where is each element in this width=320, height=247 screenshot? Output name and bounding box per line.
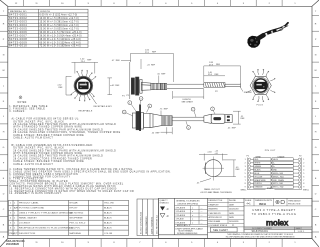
svg-text:CABLE: ALSTO FILM EXACT: CABLE: ALSTO FILM EXACT bbox=[13, 137, 53, 140]
dimension 1.06 ref row1 top bbox=[131, 53, 174, 82]
svg-text:3 PLACES: 3 PLACES bbox=[176, 210, 186, 213]
svg-text:2 PLACES: 2 PLACES bbox=[176, 214, 186, 217]
svg-text:ORANGE: ORANGE bbox=[254, 186, 263, 189]
svg-text:YELLOW: YELLOW bbox=[254, 176, 262, 178]
svg-text:YELLOW: YELLOW bbox=[104, 203, 115, 205]
svg-text:PANEL CUTOUT: PANEL CUTOUT bbox=[204, 188, 221, 191]
zone tick marks top bbox=[24, 0, 283, 6]
svg-text:-0: -0 bbox=[166, 214, 169, 218]
svg-text:LENGTH: LENGTH bbox=[40, 11, 50, 13]
svg-text:(NO) PVC: (NO) PVC bbox=[70, 228, 81, 230]
svg-text:PLUG: PLUG bbox=[257, 105, 264, 107]
zone numbers top bbox=[15, 3, 297, 5]
dimension length see chart bbox=[173, 89, 204, 99]
svg-text:48.00 IN +1.0-.5 (1219mm +25.4: 48.00 IN +1.0-.5 (1219mm +25.4-0) bbox=[40, 39, 81, 41]
zone letters left bbox=[3, 11, 5, 239]
svg-text:9: 9 bbox=[303, 187, 304, 189]
svg-text:OUTER JACKET: PVC, 80°C, BLACK: OUTER JACKET: PVC, 80°C, BLACK bbox=[13, 147, 64, 150]
balloon item 6 bbox=[148, 104, 152, 108]
svg-text:GREEN: GREEN bbox=[254, 166, 261, 168]
dimension 1.40 ref row1 right2 bbox=[204, 75, 225, 77]
svg-text:84733-0003: 84733-0003 bbox=[9, 19, 27, 23]
svg-text:DATE: DATE bbox=[229, 212, 235, 215]
row1 barrel bbox=[141, 82, 151, 90]
svg-text:MYLAR: MYLAR bbox=[70, 202, 78, 205]
svg-text:G: G bbox=[315, 147, 317, 149]
svg-text:J: J bbox=[315, 116, 316, 118]
svg-text:—: — bbox=[201, 211, 203, 213]
svg-text:28 GAUGE SHIELDED TWISTED PAIR: 28 GAUGE SHIELDED TWISTED PAIR WITH ALUM… bbox=[13, 155, 103, 158]
svg-text:BLACK: BLACK bbox=[254, 168, 261, 171]
svg-text:USAGE: USAGE bbox=[278, 156, 286, 159]
svg-text:7: 7 bbox=[245, 180, 246, 182]
svg-text:84733-0007: 84733-0007 bbox=[9, 33, 27, 37]
row2 usb-a plug body bbox=[211, 114, 225, 123]
svg-text:PANEL GASKET: PANEL GASKET bbox=[19, 217, 37, 220]
svg-text:6.00 IN +/-.5 (152.4mm +12.7-: 6.00 IN +/-.5 (152.4mm +12.7-0) bbox=[40, 15, 78, 17]
svg-text:PURPLE: PURPLE bbox=[254, 183, 262, 185]
svg-text:WHITE: WHITE bbox=[254, 163, 261, 165]
svg-text:DATE: DATE bbox=[229, 216, 235, 219]
pin out wire row 9 ORANGE bbox=[248, 185, 301, 188]
row2 locknut and flange bbox=[132, 111, 143, 129]
svg-text:84733-0005: 84733-0005 bbox=[9, 26, 27, 30]
svg-text:PROJECTION: PROJECTION bbox=[288, 203, 301, 205]
svg-text:SSTX-, 90Ω: SSTX-, 90Ω bbox=[273, 183, 284, 185]
svg-text:9: 9 bbox=[245, 187, 246, 189]
svg-text:M: M bbox=[315, 70, 317, 72]
svg-text:RED: RED bbox=[254, 159, 259, 161]
svg-text:7: 7 bbox=[303, 180, 304, 182]
svg-text:60.00 IN +1.0-.5 (1524mm +25.4: 60.00 IN +1.0-.5 (1524mm +25.4-0) bbox=[40, 42, 81, 44]
svg-text:4: 4 bbox=[303, 169, 304, 171]
dimension dia .59 ref top of receptacle bbox=[72, 62, 99, 73]
zone numbers bottom bbox=[35, 242, 296, 244]
svg-text:G: G bbox=[3, 147, 5, 149]
svg-text:—: — bbox=[201, 223, 203, 225]
svg-text:A/R: A/R bbox=[14, 207, 18, 210]
svg-text:COLOR: COLOR bbox=[104, 233, 113, 235]
svg-text:RECEPTACLE: RECEPTACLE bbox=[79, 110, 93, 113]
pin out wire row 2 WHITE bbox=[248, 161, 301, 164]
svg-text:BRAID: BRAID bbox=[267, 187, 273, 190]
balloon item 4 cable bbox=[187, 126, 191, 130]
dimension dia .63 cutout top bbox=[199, 154, 228, 161]
dimension 1.88 ref row1 right bbox=[204, 66, 241, 83]
svg-text:12. ASSEMBLY IS RoHS COMPLIANT: 12. ASSEMBLY IS RoHS COMPLIANT. bbox=[9, 192, 62, 195]
row2 usb-a plug strain relief bbox=[204, 114, 211, 123]
parts list table bbox=[9, 200, 129, 235]
pin out wire row 1 RED bbox=[248, 158, 301, 161]
svg-text:30.00 IN +1.0-.5 (762.0mm +25.: 30.00 IN +1.0-.5 (762.0mm +25.4-0) bbox=[40, 32, 82, 34]
quality symbols column bbox=[160, 199, 170, 204]
svg-text:PBT, UL 94V-0: PBT, UL 94V-0 bbox=[70, 223, 86, 225]
svg-text:15.00 IN +/-.5 (381.0mm +12.7: 15.00 IN +/-.5 (381.0mm +12.7-0) bbox=[40, 21, 79, 23]
svg-text:PIN OUT: PIN OUT bbox=[265, 150, 276, 152]
svg-text:28 GAUGE SHIELDED TWISTED PAIR: 28 GAUGE SHIELDED TWISTED PAIRS WITH ALU… bbox=[13, 149, 116, 152]
svg-text:BLACK: BLACK bbox=[104, 227, 112, 230]
revision strip with rotated text bbox=[137, 199, 159, 236]
svg-text:4 PLACES: 4 PLACES bbox=[176, 206, 186, 209]
svg-text:SEE CHART: SEE CHART bbox=[213, 228, 228, 232]
receptacle front view bbox=[74, 76, 93, 95]
svg-text:OUTER JACKET: PVC, 80°C, BLACK: OUTER JACKET: PVC, 80°C, BLACK bbox=[13, 120, 64, 123]
svg-text:LOCKNUT: LOCKNUT bbox=[19, 223, 31, 225]
row2 usb logo marking dark bbox=[213, 117, 221, 120]
pin out side rails bbox=[247, 158, 301, 190]
svg-text:2010/08/26: 2010/08/26 bbox=[229, 221, 238, 223]
proprietary statement bbox=[226, 233, 295, 239]
title block outer box bbox=[159, 198, 313, 238]
svg-text:BLACK: BLACK bbox=[104, 217, 112, 220]
svg-text:USB3.0 TYPE-A TO TYPE-A CABLE: USB3.0 TYPE-A TO TYPE-A CABLE (SHIELDED) bbox=[19, 212, 73, 215]
material/length chart table bbox=[8, 9, 88, 47]
svg-text:1 PLACE: 1 PLACE bbox=[176, 218, 185, 221]
svg-text:84733-0006: 84733-0006 bbox=[9, 30, 27, 34]
svg-text:SYMBOLS: SYMBOLS bbox=[160, 203, 170, 205]
row2 usb metal shell bbox=[225, 115, 232, 123]
svg-text:SSRX-, 90Ω: SSRX-, 90Ω bbox=[273, 173, 284, 175]
svg-text:5: 5 bbox=[303, 173, 304, 175]
svg-text:25.00 IN +/-.5 (635.0mm +12.7: 25.00 IN +/-.5 (635.0mm +12.7-0) bbox=[40, 28, 79, 30]
svg-text:CABLE: ALSTO FILM EXACT: CABLE: ALSTO FILM EXACT bbox=[13, 163, 53, 166]
svg-text:2: 2 bbox=[303, 163, 304, 165]
svg-text:6: 6 bbox=[245, 176, 246, 178]
units and projection row bbox=[244, 198, 312, 206]
svg-text:84733-0004: 84733-0004 bbox=[9, 23, 27, 27]
balloon item 2 bbox=[128, 101, 132, 105]
panel cutout circle bbox=[205, 160, 222, 177]
svg-text:3: 3 bbox=[303, 166, 304, 168]
product photo cable bbox=[258, 29, 282, 39]
svg-text:28 GAUGE SHIELDED TWISTED PAIR: 28 GAUGE SHIELDED TWISTED PAIR WITH ALUM… bbox=[13, 128, 103, 131]
svg-text:SSTX+, 90Ω: SSTX+, 90Ω bbox=[273, 187, 284, 189]
pin out wire row 5 BLUE bbox=[248, 172, 301, 175]
svg-text:(AS NOTED): (AS NOTED) bbox=[70, 212, 84, 215]
svg-text:DESCRIPTION: DESCRIPTION bbox=[19, 233, 36, 235]
svg-text:TO USB3.0 TYPE-A PLUG: TO USB3.0 TYPE-A PLUG bbox=[252, 212, 297, 216]
notes header bbox=[19, 96, 22, 99]
svg-text:DRWN: BWATERS: DRWN: BWATERS bbox=[145, 216, 148, 234]
svg-text:SHELL: SHELL bbox=[241, 190, 247, 192]
svg-text:WITH STRANDED TINNED COPPER DR: WITH STRANDED TINNED COPPER DRAIN WIRE bbox=[13, 152, 82, 155]
zone letters right bbox=[315, 11, 317, 239]
svg-text:CHECKED BY: CHECKED BY bbox=[209, 213, 222, 215]
svg-text:28 GAUGE SHIELDED TWISTED PAIR: 28 GAUGE SHIELDED TWISTED PAIRS WITH ALU… bbox=[13, 123, 116, 126]
svg-text:4: 4 bbox=[245, 169, 246, 171]
svg-text:-0: -0 bbox=[166, 207, 169, 211]
svg-text:INCORPORATED AND SHOULD NOT BE: INCORPORATED AND SHOULD NOT BE USED WITH… bbox=[226, 236, 295, 239]
svg-text:2: 2 bbox=[245, 163, 246, 165]
receptacle wire leads bbox=[71, 70, 96, 101]
svg-text:SCALE: SCALE bbox=[245, 199, 252, 202]
svg-text:-.00: -.00 bbox=[215, 153, 218, 155]
svg-text:84733-0010: 84733-0010 bbox=[9, 44, 27, 48]
row1 panel line bbox=[129, 62, 131, 99]
svg-text:BLACK: BLACK bbox=[104, 212, 112, 215]
svg-text:MATERIAL: MATERIAL bbox=[70, 232, 82, 235]
bottom-left format stamp bbox=[6, 239, 25, 246]
drawing title bbox=[252, 208, 297, 216]
svg-text:2010/08/26: 2010/08/26 bbox=[6, 242, 20, 246]
document number band bbox=[244, 227, 312, 230]
third angle projection symbol bbox=[276, 200, 285, 203]
dimension dia .62 ref row1 left bbox=[107, 78, 112, 95]
row1 plug P2 overmold (hatched) bbox=[204, 83, 241, 88]
svg-text:BLUE: BLUE bbox=[254, 173, 260, 175]
svg-text:DOCUMENT STATUS: DOCUMENT STATUS bbox=[209, 224, 228, 227]
balloon item 3b bbox=[139, 97, 143, 101]
plug usb face dark bbox=[255, 82, 267, 89]
svg-text:WITH STRANDED TINNED COPPER DR: WITH STRANDED TINNED COPPER DRAIN WIRE bbox=[13, 126, 82, 129]
svg-text:84733-0001: 84733-0001 bbox=[9, 13, 27, 17]
svg-text:1: 1 bbox=[303, 159, 304, 161]
svg-text:84733-0009: 84733-0009 bbox=[9, 40, 27, 44]
svg-text:POTTING COMPOUND: POTTING COMPOUND bbox=[19, 208, 45, 210]
svg-text:SHELL: SHELL bbox=[303, 190, 309, 192]
pin out wire row 3 GREEN bbox=[248, 165, 301, 168]
pin out wire row 7 DRAIN WIRE bbox=[248, 179, 301, 182]
svg-text:84733-0002: 84733-0002 bbox=[9, 16, 27, 20]
svg-text:DRAWN BY: DRAWN BY bbox=[209, 203, 220, 206]
balloon item 5 bbox=[122, 110, 126, 114]
svg-text:(UNLESS SPECIFIED): (UNLESS SPECIFIED) bbox=[178, 203, 199, 205]
svg-text:EC NO: UCP2010-2513: EC NO: UCP2010-2513 bbox=[141, 211, 143, 234]
row2 overmold taper bbox=[144, 113, 162, 127]
svg-text:SEE CHART: SEE CHART bbox=[182, 101, 194, 104]
see chart box bbox=[210, 227, 237, 232]
svg-text:36.00 IN +1.0-.5 (914.4mm +25.: 36.00 IN +1.0-.5 (914.4mm +25.4-0) bbox=[40, 35, 82, 37]
svg-text:GENERAL TOLERANCES: GENERAL TOLERANCES bbox=[176, 200, 200, 203]
svg-text:J: J bbox=[3, 116, 4, 118]
svg-text:2010/05/18: 2010/05/18 bbox=[229, 209, 238, 211]
receptacle key leader bbox=[88, 92, 97, 105]
svg-text:4=1: 4=1 bbox=[247, 203, 252, 206]
panel cutout centerlines bbox=[203, 157, 225, 181]
row2 panel bar dark bbox=[139, 105, 141, 132]
svg-text:28 GAUGE CONDUCTORS STRANDED T: 28 GAUGE CONDUCTORS STRANDED TINNED COPP… bbox=[13, 157, 92, 160]
svg-text:—: — bbox=[201, 219, 203, 221]
svg-text:NOTES:: NOTES: bbox=[18, 102, 28, 104]
svg-text:WITHIN DIMENSIONS: WITHIN DIMENSIONS bbox=[177, 233, 198, 235]
dimension dia .62 ref left of receptacle bbox=[66, 76, 72, 95]
svg-text:SHEET: SHEET bbox=[296, 228, 303, 230]
svg-text:CABLE SHIELD: BRAIDED TINNED C: CABLE SHIELD: BRAIDED TINNED COPPER WIRE bbox=[13, 160, 84, 163]
svg-text:28 GAUGE INSULATED CONDUCTORS,: 28 GAUGE INSULATED CONDUCTORS, STRANDED,… bbox=[13, 131, 120, 134]
svg-text:VBUS: VBUS bbox=[273, 159, 279, 161]
svg-text:DATE: DATE bbox=[229, 203, 235, 206]
svg-text:1: 1 bbox=[245, 159, 246, 161]
row2 ribbed strain section bbox=[162, 116, 172, 126]
svg-text:GND: GND bbox=[273, 169, 278, 171]
svg-text:5: 5 bbox=[245, 173, 246, 175]
svg-text:3: 3 bbox=[245, 166, 246, 168]
general tolerances block bbox=[175, 206, 208, 227]
svg-text:M: M bbox=[3, 70, 5, 72]
svg-text:CABLE SHIELD: BRAIDED TINNED C: CABLE SHIELD: BRAIDED TINNED COPPER WIRE bbox=[13, 134, 84, 137]
svg-text:molex: molex bbox=[266, 219, 289, 228]
svg-text:BLACK: BLACK bbox=[104, 222, 112, 225]
svg-text:APPROVED BY: APPROVED BY bbox=[209, 216, 223, 219]
pin out wire row 6 YELLOW bbox=[248, 175, 301, 178]
balloon item 7 cable top bbox=[191, 107, 195, 111]
svg-text:B) CABLE FOR ASSEMBLIES 84733-: B) CABLE FOR ASSEMBLIES 84733-XXXX/OVERM… bbox=[12, 144, 94, 147]
svg-text:EPOXY: EPOXY bbox=[70, 208, 79, 210]
row2 cable wire bbox=[172, 117, 204, 121]
row1 cable wire bbox=[167, 84, 204, 88]
signature column bbox=[208, 198, 245, 227]
svg-text:BLACK: BLACK bbox=[104, 207, 112, 210]
svg-text:1. MATERIALS: SEE TABLE: 1. MATERIALS: SEE TABLE bbox=[9, 105, 48, 108]
svg-text:—: — bbox=[201, 215, 203, 217]
svg-text:PRODUCT LABEL: PRODUCT LABEL bbox=[19, 202, 39, 205]
pin out wire row 8 PURPLE bbox=[248, 182, 301, 185]
svg-text:DESIGN STYLE: DESIGN STYLE bbox=[209, 200, 224, 202]
dimension .49 cutout right bbox=[215, 160, 236, 177]
product photo connector head bbox=[247, 36, 260, 48]
svg-text:THIRD ANGLE: THIRD ANGLE bbox=[288, 199, 301, 202]
svg-text:DRAIN WIRE: DRAIN WIRE bbox=[254, 179, 266, 182]
pin out wire row 4 BLACK bbox=[248, 168, 301, 171]
svg-text:A) CABLE FOR ASSEMBLIES 84733: A) CABLE FOR ASSEMBLIES 84733 SERIES UL: bbox=[12, 118, 80, 121]
general notes text block bbox=[9, 105, 171, 195]
svg-text:INCH: INCH bbox=[259, 202, 266, 206]
svg-text:72.00 IN +1.0-.5 (1829mm +25.4: 72.00 IN +1.0-.5 (1829mm +25.4-0) bbox=[40, 46, 81, 48]
zone tick marks left bbox=[0, 16, 8, 232]
svg-text:BWATERS: BWATERS bbox=[209, 208, 219, 211]
plug face view hexagon bbox=[250, 76, 271, 94]
svg-text:IN-LINE: IN-LINE bbox=[229, 200, 236, 202]
svg-text:8: 8 bbox=[303, 183, 304, 185]
svg-text:RECEPTACLE HOUSING TO PLUG (OV: RECEPTACLE HOUSING TO PLUG (OVERMOLD) bbox=[19, 227, 74, 230]
svg-text:RWOODMAN: RWOODMAN bbox=[209, 220, 221, 223]
svg-text:0 PLACES: 0 PLACES bbox=[176, 222, 186, 225]
svg-text:ANGULAR ± 3°: ANGULAR ± 3° bbox=[177, 224, 191, 227]
zone tick marks bottom bbox=[24, 239, 283, 247]
receptacle usb face dark bbox=[78, 82, 88, 89]
svg-text:.03/.125 MAX PANEL THICKNESS: .03/.125 MAX PANEL THICKNESS bbox=[200, 191, 232, 194]
svg-text:RECEPTACLE KEY: RECEPTACLE KEY bbox=[94, 105, 113, 108]
dimension .51 ref plug right bbox=[233, 111, 241, 124]
svg-text:P1: P1 bbox=[232, 225, 234, 227]
row1 receptacle flange discs bbox=[131, 77, 151, 95]
svg-text:6: 6 bbox=[303, 176, 304, 178]
svg-text:2. FINISHES: SEE TABLE: 2. FINISHES: SEE TABLE bbox=[9, 108, 45, 111]
svg-text:GND_DRAIN: GND_DRAIN bbox=[273, 179, 285, 182]
svg-text:8: 8 bbox=[245, 183, 246, 185]
svg-text:10.00 IN +/-.5 (254.0mm +12.7: 10.00 IN +/-.5 (254.0mm +12.7-0) bbox=[40, 18, 79, 20]
svg-text:20.00 IN +/-.5 (508.0mm +12.7: 20.00 IN +/-.5 (508.0mm +12.7-0) bbox=[40, 25, 79, 27]
balloon item 1 plug bbox=[211, 107, 215, 111]
svg-text:SSRX+, 90Ω: SSRX+, 90Ω bbox=[273, 176, 284, 178]
zone tick marks right bbox=[312, 16, 319, 232]
plug wire leads bbox=[246, 69, 275, 102]
svg-text:—: — bbox=[201, 207, 203, 209]
svg-text:NEOPRENE: NEOPRENE bbox=[70, 218, 84, 220]
dimension .24 ref row1 bbox=[140, 59, 142, 69]
svg-text:3. CABLES:: 3. CABLES: bbox=[9, 110, 25, 113]
svg-text:84733-0008: 84733-0008 bbox=[9, 37, 27, 41]
row1 threaded section bbox=[151, 83, 167, 89]
svg-text:DATE: 2010/08/26: DATE: 2010/08/26 bbox=[150, 216, 153, 234]
